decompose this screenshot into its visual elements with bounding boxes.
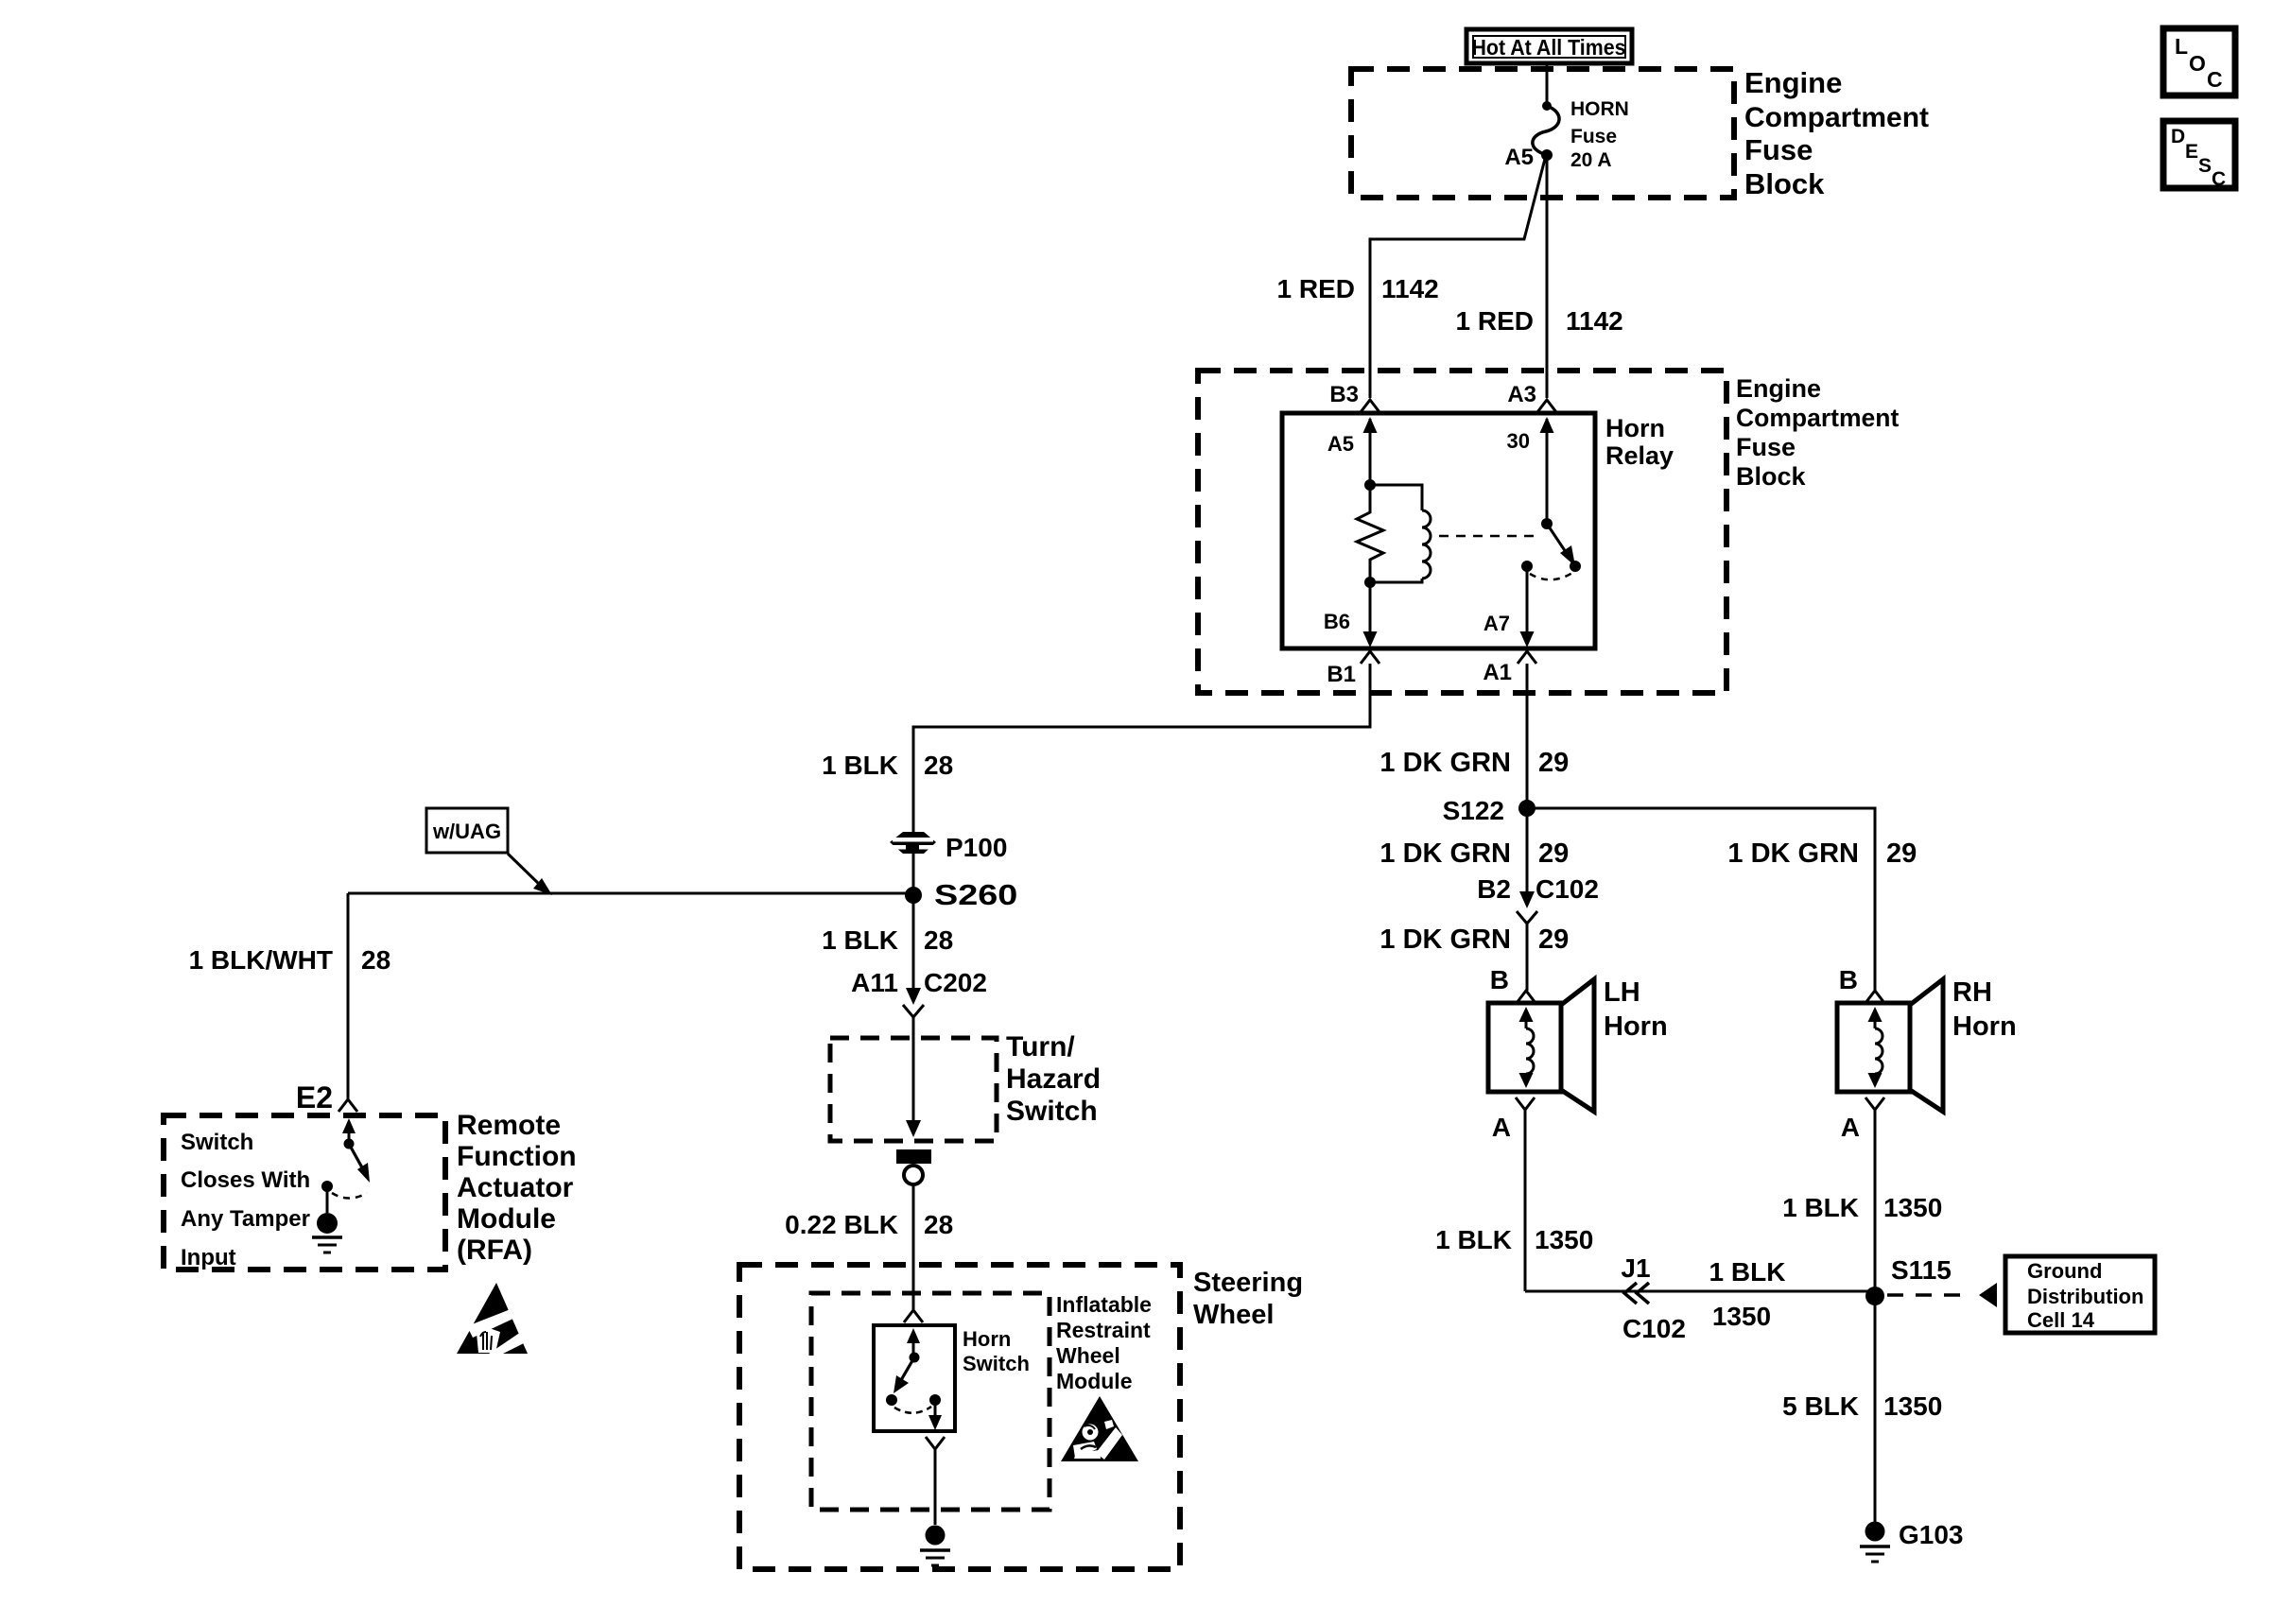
svg-text:Hazard: Hazard xyxy=(1006,1063,1101,1095)
wire: RH horn A down to S115 xyxy=(1874,1110,1877,1291)
label: 1 DK GRN 29 (above S122) xyxy=(1379,748,1569,778)
svg-text:C202: C202 xyxy=(924,968,987,997)
svg-text:1 DK GRN: 1 DK GRN xyxy=(1727,838,1859,869)
splice S122 xyxy=(1443,796,1536,825)
svg-text:A3: A3 xyxy=(1507,382,1536,407)
svg-text:C: C xyxy=(2207,67,2223,92)
wire: S122 right branch to RH horn xyxy=(1527,808,1875,991)
svg-text:B6: B6 xyxy=(1324,610,1350,633)
connector J1 / C102 (double chevron) xyxy=(1621,1253,1686,1343)
relay switch dashed travel arc xyxy=(1530,573,1572,579)
label: RH Horn xyxy=(1952,977,2017,1042)
svg-text:A11: A11 xyxy=(851,968,898,997)
label: 5 BLK 1350 xyxy=(1782,1391,1942,1421)
connector pin E2 xyxy=(296,1080,357,1114)
svg-text:28: 28 xyxy=(924,1210,953,1239)
relay coil node (bottom) xyxy=(1364,577,1376,588)
svg-text:A: A xyxy=(1841,1113,1860,1142)
relay switch common node xyxy=(1541,518,1553,529)
ring terminal (circle) xyxy=(904,1166,923,1184)
relay pin B6 terminal with down arrow xyxy=(1324,582,1378,648)
relay coil (parallel branch with loops) xyxy=(1370,485,1431,582)
label: Engine Compartment Fuse Block (top) xyxy=(1744,66,1929,200)
wire: S115 down to G103 xyxy=(1874,1296,1877,1522)
fuse HORN Fuse 20 A xyxy=(1504,98,1629,171)
svg-text:B1: B1 xyxy=(1327,662,1356,687)
relay resistor (zigzag) xyxy=(1357,485,1383,582)
horn relay box xyxy=(1282,413,1595,648)
wire: drop down to E2 xyxy=(347,893,350,1098)
label: w/UAG callout box xyxy=(426,808,508,853)
relay pin A5 terminal with up arrow xyxy=(1327,417,1378,485)
svg-text:HORN: HORN xyxy=(1570,98,1629,120)
svg-text:C: C xyxy=(2212,168,2226,190)
svg-text:1142: 1142 xyxy=(1381,274,1439,303)
svg-text:30: 30 xyxy=(1507,429,1530,453)
svg-text:J1: J1 xyxy=(1621,1253,1650,1283)
svg-text:28: 28 xyxy=(924,925,953,955)
svg-text:Fuse: Fuse xyxy=(1736,433,1796,461)
label: 1 BLK/WHT 28 xyxy=(189,945,391,975)
LH horn pin A xyxy=(1492,1097,1535,1142)
connector pin B1 xyxy=(1327,651,1379,687)
svg-text:A5: A5 xyxy=(1327,432,1354,456)
svg-text:5 BLK: 5 BLK xyxy=(1782,1391,1859,1421)
DESC reference box xyxy=(2163,121,2235,190)
in-line connector P100 (grommet) xyxy=(890,832,1007,862)
off-page dashed link to ground distribution xyxy=(1887,1283,1997,1307)
LH horn body xyxy=(1488,979,1594,1112)
svg-text:A1: A1 xyxy=(1483,660,1512,685)
svg-text:Ground: Ground xyxy=(2027,1259,2102,1283)
svg-text:Switch: Switch xyxy=(1006,1096,1098,1127)
svg-text:Engine: Engine xyxy=(1744,66,1842,99)
svg-text:C102: C102 xyxy=(1622,1314,1686,1343)
svg-text:29: 29 xyxy=(1538,924,1569,955)
svg-text:Module: Module xyxy=(1056,1369,1133,1393)
label: Steering Wheel xyxy=(1193,1268,1303,1330)
wire: horn switch to steering ground xyxy=(934,1449,937,1525)
relay coil node (top) xyxy=(1364,479,1376,491)
svg-text:S122: S122 xyxy=(1443,796,1504,825)
relay switch fixed contact A7 xyxy=(1521,561,1533,572)
RH horn pin A xyxy=(1841,1097,1884,1142)
svg-text:1 BLK: 1 BLK xyxy=(1709,1257,1786,1287)
svg-text:(RFA): (RFA) xyxy=(457,1235,532,1266)
wire: S122 down to C102 xyxy=(1526,808,1529,893)
label: Engine Compartment Fuse Block (relay) xyxy=(1736,374,1899,491)
label: Inflatable Restraint Wheel Module xyxy=(1056,1292,1152,1393)
steering wheel dashed box xyxy=(739,1265,1180,1569)
connector A11 / C202 (arrow + chevron) xyxy=(851,968,987,1017)
label: Turn/Hazard Switch xyxy=(1006,1031,1101,1127)
label: 1 BLK 1350 (RH) xyxy=(1782,1193,1942,1222)
relay switch movable contact (arrow) xyxy=(1547,524,1581,572)
svg-text:LH: LH xyxy=(1604,977,1640,1008)
relay pin 30 terminal with up arrow xyxy=(1507,417,1554,524)
ground G103 xyxy=(1860,1520,1964,1562)
horn switch box xyxy=(874,1325,955,1431)
inflatable restraint wheel module dashed box xyxy=(811,1293,1050,1510)
turn/hazard switch dashed box xyxy=(830,1038,997,1141)
svg-text:29: 29 xyxy=(1538,748,1569,778)
label: 1 BLK 28 (below S260) xyxy=(822,925,953,955)
wire: Hot At All Times feed into fuse xyxy=(1546,61,1549,106)
engine compartment fuse block (relay) dashed box xyxy=(1198,371,1726,693)
svg-text:Switch: Switch xyxy=(181,1130,253,1155)
svg-text:Actuator: Actuator xyxy=(457,1172,574,1203)
splice S260 xyxy=(905,879,1017,911)
svg-text:1 RED: 1 RED xyxy=(1277,274,1355,303)
label: Horn Switch xyxy=(963,1327,1030,1375)
svg-text:B: B xyxy=(1839,965,1858,994)
svg-text:1 DK GRN: 1 DK GRN xyxy=(1379,748,1511,778)
tamper switch ground xyxy=(312,1213,342,1253)
remote function actuator module dashed box xyxy=(164,1115,445,1270)
svg-text:Module: Module xyxy=(457,1203,556,1235)
wire: LH horn A down to junction xyxy=(1524,1110,1527,1291)
svg-text:S115: S115 xyxy=(1891,1255,1952,1285)
svg-text:Relay: Relay xyxy=(1605,441,1674,470)
label: Remote Function Actuator Module (RFA) xyxy=(457,1110,577,1266)
svg-text:Turn/: Turn/ xyxy=(1006,1031,1075,1063)
svg-text:1350: 1350 xyxy=(1883,1193,1942,1222)
connector pin B3 xyxy=(1329,382,1379,412)
relay mechanical link (dashed) xyxy=(1439,535,1541,538)
wire: P100 to S260 xyxy=(912,854,915,895)
svg-text:RH: RH xyxy=(1952,977,1992,1008)
svg-text:E: E xyxy=(2185,141,2198,163)
wire: fuse A5 to B3 branch (diagonal + horizontal + vertical) xyxy=(1370,159,1545,398)
svg-text:Inflatable: Inflatable xyxy=(1056,1292,1152,1317)
svg-text:Block: Block xyxy=(1736,462,1807,491)
svg-text:Block: Block xyxy=(1744,167,1825,200)
svg-text:Engine: Engine xyxy=(1736,374,1821,403)
label: 1 BLK 1350 (LH) xyxy=(1435,1225,1593,1254)
svg-text:Wheel: Wheel xyxy=(1056,1343,1120,1368)
svg-text:Restraint: Restraint xyxy=(1056,1318,1151,1342)
relay pin A7 terminal with down arrow xyxy=(1484,566,1535,648)
svg-text:1 BLK: 1 BLK xyxy=(822,751,898,780)
svg-text:B3: B3 xyxy=(1329,382,1359,407)
svg-text:20 A: 20 A xyxy=(1570,149,1612,171)
label: 1 RED 1142 (left branch) xyxy=(1277,274,1439,303)
connector chevron into horn switch xyxy=(904,1310,923,1322)
svg-text:Horn: Horn xyxy=(963,1327,1011,1351)
label: 1 DK GRN 29 (below S122) xyxy=(1379,838,1569,869)
horn switch contacts and movable arm xyxy=(886,1328,942,1430)
svg-text:B2: B2 xyxy=(1477,874,1511,904)
svg-text:Steering: Steering xyxy=(1193,1268,1303,1298)
svg-text:Compartment: Compartment xyxy=(1744,102,1929,133)
svg-text:Switch: Switch xyxy=(963,1352,1030,1375)
connector chevron below horn switch xyxy=(926,1437,945,1449)
tamper switch inside RFA xyxy=(321,1118,370,1213)
cable connector (black bar) xyxy=(896,1149,931,1164)
svg-text:Function: Function xyxy=(457,1141,577,1172)
svg-text:P100: P100 xyxy=(946,833,1007,862)
svg-text:1 RED: 1 RED xyxy=(1456,306,1534,336)
ESD sensitive device triangle symbol xyxy=(457,1283,528,1354)
annotation: Switch Closes With Any Tamper Input xyxy=(181,1130,310,1270)
label: Horn Relay xyxy=(1605,414,1674,470)
svg-text:28: 28 xyxy=(361,945,390,975)
svg-text:Input: Input xyxy=(181,1245,236,1270)
svg-text:Closes With: Closes With xyxy=(181,1167,310,1193)
svg-text:A5: A5 xyxy=(1504,145,1534,170)
ground distribution cell 14 reference box xyxy=(2005,1256,2155,1333)
svg-text:Horn: Horn xyxy=(1604,1011,1668,1042)
svg-text:1 BLK: 1 BLK xyxy=(822,925,898,955)
wire: C202 into turn/hazard switch xyxy=(912,1017,915,1038)
svg-text:A: A xyxy=(1492,1113,1511,1142)
connector pin A3 xyxy=(1507,382,1556,412)
svg-text:w/UAG: w/UAG xyxy=(432,820,501,843)
svg-text:Compartment: Compartment xyxy=(1736,404,1899,432)
svg-text:Hot At All Times: Hot At All Times xyxy=(1471,35,1625,60)
wire: fuse A5 straight down to A3 xyxy=(1546,155,1549,398)
LOC reference box xyxy=(2163,28,2235,95)
svg-text:0.22 BLK: 0.22 BLK xyxy=(785,1210,898,1239)
wire: ring to steering wheel xyxy=(912,1185,915,1310)
RH horn coil element xyxy=(1868,1007,1883,1088)
svg-text:28: 28 xyxy=(924,751,953,780)
RH horn body xyxy=(1837,979,1943,1112)
wire: S260 down to C202 xyxy=(912,895,915,989)
svg-text:Fuse: Fuse xyxy=(1570,126,1617,147)
svg-text:C102: C102 xyxy=(1536,874,1599,904)
LH horn coil element xyxy=(1519,1007,1535,1088)
splice S115 xyxy=(1865,1255,1952,1305)
steering wheel ground xyxy=(920,1526,950,1566)
LH horn pin B xyxy=(1490,965,1536,1003)
svg-text:Any Tamper: Any Tamper xyxy=(181,1206,310,1232)
svg-text:1350: 1350 xyxy=(1883,1391,1942,1421)
connector B2 / C102 (arrow + chevron) xyxy=(1477,874,1599,924)
svg-text:Distribution: Distribution xyxy=(2027,1285,2143,1308)
wire: C102 to LH horn xyxy=(1526,924,1529,991)
svg-text:Horn: Horn xyxy=(1952,1011,2017,1042)
label: 1 RED 1142 (right branch) xyxy=(1456,306,1623,336)
label: 0.22 BLK 28 xyxy=(785,1210,953,1239)
svg-text:E2: E2 xyxy=(296,1080,333,1114)
svg-text:1 BLK: 1 BLK xyxy=(1435,1225,1512,1254)
svg-text:1142: 1142 xyxy=(1566,306,1623,336)
svg-text:29: 29 xyxy=(1886,838,1917,869)
svg-text:Wheel: Wheel xyxy=(1193,1300,1274,1330)
svg-text:Fuse: Fuse xyxy=(1744,133,1813,166)
wire: A1 down to S122 xyxy=(1526,664,1529,808)
svg-text:O: O xyxy=(2189,51,2206,76)
wire: B1 down, left along y=769, down to P100/S260 xyxy=(913,664,1370,832)
wire: LH junction horizontal to S115 xyxy=(1525,1290,1875,1293)
svg-text:B: B xyxy=(1490,965,1509,994)
svg-text:S260: S260 xyxy=(934,879,1017,911)
svg-text:1 DK GRN: 1 DK GRN xyxy=(1379,838,1511,869)
RH horn pin B xyxy=(1839,965,1884,1003)
svg-text:1350: 1350 xyxy=(1712,1302,1771,1331)
svg-text:A7: A7 xyxy=(1484,612,1510,635)
wire: S260 left to RFA drop xyxy=(348,892,913,895)
power feed box 'Hot At All Times' xyxy=(1466,29,1632,63)
label: 1 DK GRN 29 (to LH horn) xyxy=(1379,924,1569,955)
wire inside turn/hazard switch with down arrow xyxy=(906,1038,921,1137)
svg-text:1350: 1350 xyxy=(1535,1225,1593,1254)
connector pin A1 xyxy=(1483,651,1536,685)
label: 1 BLK 1350 (bottom horizontal) xyxy=(1709,1257,1786,1331)
svg-text:D: D xyxy=(2171,126,2185,147)
svg-text:Horn: Horn xyxy=(1605,414,1665,442)
svg-text:L: L xyxy=(2175,34,2188,59)
svg-text:1 DK GRN: 1 DK GRN xyxy=(1379,924,1511,955)
w/UAG pointer arrow xyxy=(508,854,552,895)
svg-text:Cell 14: Cell 14 xyxy=(2027,1308,2095,1332)
svg-text:1 BLK: 1 BLK xyxy=(1782,1193,1859,1222)
label: LH Horn xyxy=(1604,977,1668,1042)
svg-text:S: S xyxy=(2198,155,2212,177)
label: 1 DK GRN 29 (RH branch) xyxy=(1727,838,1917,869)
svg-text:1 BLK/WHT: 1 BLK/WHT xyxy=(189,945,333,975)
svg-text:29: 29 xyxy=(1538,838,1569,869)
SRS warning triangle symbol xyxy=(1061,1396,1138,1461)
svg-text:G103: G103 xyxy=(1899,1520,1964,1549)
engine compartment fuse block (top) dashed box xyxy=(1351,69,1734,198)
svg-text:Remote: Remote xyxy=(457,1110,561,1141)
label: 1 BLK 28 (above P100) xyxy=(822,751,953,780)
